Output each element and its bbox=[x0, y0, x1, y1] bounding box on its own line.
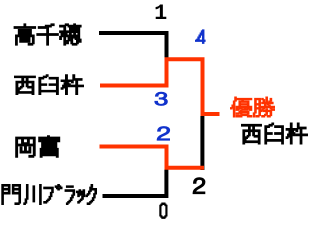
score 3 (西臼杵) bbox=[155, 92, 167, 105]
wire: 門川ブラック line (black, right then up to lower junction) bbox=[103, 170, 167, 197]
team 門川ブラック bbox=[2, 185, 97, 205]
wire: 高千穂 line (black, right then down to semifinal junction) bbox=[99, 33, 167, 60]
team 西臼杵 bbox=[15, 75, 84, 95]
wire: 西臼杵 winner path (red) through final to champion stub bbox=[100, 59, 220, 114]
wire: lower-final winner vertical (black, up toward champion junction) bbox=[200, 116, 204, 170]
team 高千穂 bbox=[14, 24, 81, 45]
wire: 岡富 line (red, right, down, right to lower-final junction) bbox=[100, 147, 205, 168]
score 4 (final, 西臼杵) bbox=[196, 30, 205, 44]
team 岡富 bbox=[16, 136, 60, 157]
score 0 (門川ブラック) bbox=[160, 203, 167, 218]
score 1 (高千穂) bbox=[156, 4, 167, 19]
champion name 西臼杵 bbox=[242, 123, 308, 144]
label 優勝 (champion) bbox=[230, 97, 274, 117]
score 2 (final, 岡富) bbox=[193, 178, 204, 194]
score 2 (岡富) bbox=[158, 127, 170, 140]
